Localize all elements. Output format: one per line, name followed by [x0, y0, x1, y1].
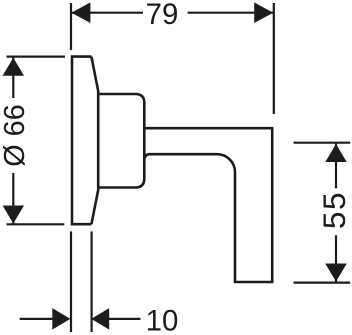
dim 79: left arrowhead [71, 2, 90, 23]
dim 66: bottom arrowhead [3, 206, 25, 224]
dim 79: dimension line segments [71, 12, 274, 14]
disk rim front edge (taper) [91, 57, 98, 225]
dim 66: top arrowhead [3, 58, 25, 76]
dim 55: top arrowhead [325, 144, 347, 162]
dim 79: right arrowhead [254, 2, 273, 23]
dim 10: left arrowhead [52, 308, 70, 330]
svg-text:10: 10 [146, 304, 179, 335]
dim 10: right leader line [109, 318, 141, 320]
dim 66: bottom extension line [7, 223, 65, 225]
escutcheon disk side profile [72, 57, 91, 225]
dim 79: left extension line [70, 3, 72, 50]
svg-text:Ø 66: Ø 66 [0, 104, 31, 166]
dim 66: dimension line segments [12, 58, 14, 224]
dim 10: left leader line [20, 318, 53, 320]
dim 55: bottom arrowhead [325, 264, 347, 282]
dim 10: left extension line [70, 231, 72, 332]
dim 79: right extension line [273, 3, 275, 114]
lever handle L-shape [144, 128, 272, 282]
dim 66: top extension line [7, 55, 66, 57]
svg-text:55: 55 [316, 191, 352, 229]
dim 55: dimension line segments [335, 144, 337, 282]
dim 10: right arrowhead [91, 308, 109, 330]
dim 10: right extension line [90, 231, 92, 332]
dim 55: bottom extension line [294, 282, 351, 284]
dim 55: top extension line [294, 142, 351, 144]
hub (handle base sleeve) [98, 94, 145, 188]
svg-text:79: 79 [146, 0, 179, 31]
